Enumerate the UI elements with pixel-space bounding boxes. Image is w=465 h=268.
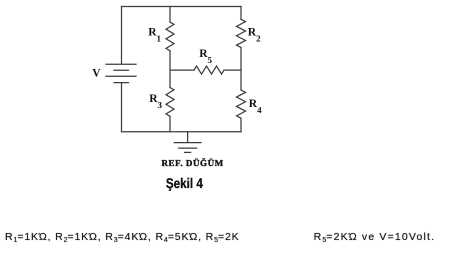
svg-text:R3: R3 xyxy=(149,93,162,110)
svg-text:V: V xyxy=(92,67,101,79)
svg-text:R5: R5 xyxy=(199,48,212,65)
svg-text:R1: R1 xyxy=(148,27,161,44)
svg-text:R4: R4 xyxy=(249,98,262,115)
svg-text:Şekil 4: Şekil 4 xyxy=(166,175,203,191)
svg-text:REF. DÜĞÜM: REF. DÜĞÜM xyxy=(162,158,224,168)
svg-text:R2: R2 xyxy=(248,26,261,43)
